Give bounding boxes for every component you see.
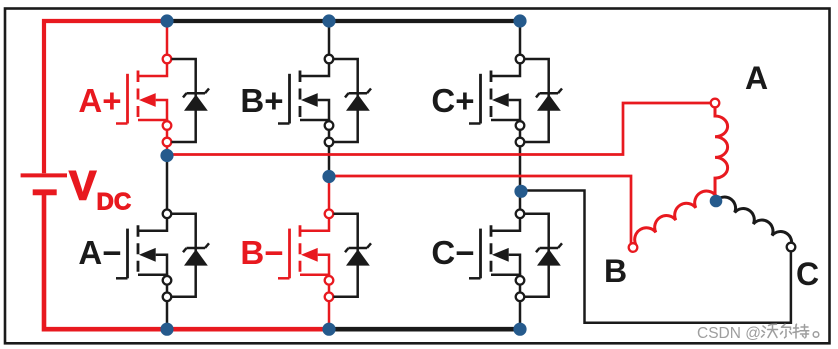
- svg-text:C: C: [796, 256, 819, 292]
- svg-text:A+: A+: [78, 82, 121, 119]
- svg-text:DC: DC: [97, 189, 132, 216]
- svg-text:CSDN @: CSDN @: [697, 325, 761, 342]
- svg-text:C−: C−: [431, 234, 474, 271]
- svg-text:V: V: [69, 163, 97, 209]
- svg-text:B+: B+: [240, 82, 283, 119]
- svg-text:C+: C+: [431, 82, 474, 119]
- svg-text:A−: A−: [78, 234, 121, 271]
- svg-text:B−: B−: [240, 234, 283, 271]
- svg-text:A: A: [745, 60, 768, 96]
- svg-text:B: B: [604, 253, 627, 289]
